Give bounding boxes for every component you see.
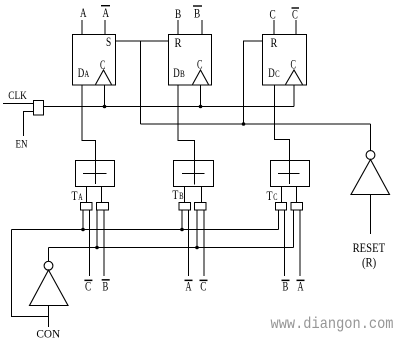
wire DA input from adder A (82, 85, 96, 161)
svg-text:www.diangon.com: www.diangon.com (271, 315, 394, 333)
wire S line FF-A to FF-B (116, 40, 169, 42)
junction clock-FFA (103, 105, 107, 109)
and-gate box TA1 (81, 203, 93, 211)
svg-text:C: C (291, 56, 297, 71)
wire NCON bus to inverter output (48, 248, 50, 262)
svg-text:C: C (197, 56, 203, 71)
svg-text:C: C (275, 70, 280, 80)
junction clock-FFB (199, 105, 203, 109)
wire TB2 to NCON bus (196, 210, 198, 248)
and-gate box TB2 (195, 203, 207, 211)
wire FF-B clock input (200, 85, 202, 107)
svg-text:C: C (270, 7, 276, 22)
svg-text:C: C (100, 57, 105, 72)
wire S/R branch down (140, 41, 142, 124)
wire C-bar output stub (295, 20, 297, 35)
clock triangle FF-A (96, 70, 112, 85)
wire CON input (48, 306, 50, 328)
adder box TA (76, 161, 115, 187)
wire TA2 to NCON bus (96, 210, 98, 248)
junction reset net (242, 122, 246, 126)
wire clock distribution line (44, 106, 295, 108)
svg-text:CLK: CLK (8, 90, 27, 102)
wire B output stub (177, 20, 179, 35)
svg-text:R: R (175, 35, 182, 50)
wire TA2 to B-bar input (103, 210, 105, 276)
wire TB1 to A-bar input (188, 210, 190, 276)
svg-text:A: A (84, 70, 89, 80)
svg-text:CON: CON (36, 327, 60, 338)
wire TC1 to B-bar input (284, 210, 286, 276)
wire TA1 to CON bus (82, 210, 84, 230)
wire TC adder to and-gates (281, 187, 283, 203)
wire DB input from adder B (178, 85, 195, 161)
plus symbol TB (182, 173, 205, 175)
junction TB1-CON bus (180, 228, 184, 232)
wire TA1 to C-bar input (89, 210, 91, 276)
svg-text:D: D (78, 65, 85, 80)
wire A output stub (81, 20, 83, 35)
adder box TB (174, 161, 214, 187)
junction TB2-NCON bus (195, 246, 199, 250)
svg-text:C: C (273, 193, 277, 203)
svg-text:RESET: RESET (353, 241, 386, 255)
inverter U-CON bubble (44, 261, 53, 270)
wire R input FF-C (244, 41, 263, 124)
wire reset net horizontal (141, 123, 371, 125)
svg-text:(R): (R) (362, 256, 376, 270)
wire TB adder to and-gates (184, 187, 186, 203)
svg-text:B: B (194, 6, 200, 21)
wire C output stub (273, 20, 275, 35)
svg-text:A: A (78, 193, 82, 203)
svg-text:D: D (268, 65, 275, 80)
wire TC2 to NCON bus (293, 210, 295, 248)
wire A-bar output stub (104, 20, 106, 35)
wire TB2 to C-bar input (203, 210, 205, 276)
flip-flop FF-B body (169, 35, 212, 86)
wire CON bus left drop (12, 230, 49, 317)
clock gate box (34, 101, 44, 116)
svg-text:A: A (103, 5, 110, 20)
wire RESET input (370, 195, 372, 235)
wire NCON bus (49, 247, 294, 249)
and-gate box TC1 (276, 203, 287, 211)
wire EN input (24, 112, 34, 137)
wire TC1 to CON bus (278, 210, 280, 230)
svg-text:A: A (80, 5, 87, 20)
svg-text:C: C (292, 7, 298, 22)
adder box TC (271, 161, 310, 187)
and-gate box TA2 (97, 203, 109, 211)
and-gate box TB1 (179, 203, 191, 211)
junction TA2-NCON bus (95, 246, 99, 250)
svg-text:B: B (179, 192, 183, 202)
svg-text:T: T (267, 188, 273, 203)
svg-text:T: T (72, 188, 78, 203)
wire reset net vertical to inverter (370, 124, 372, 151)
wire B-bar output stub (201, 20, 203, 35)
svg-text:R: R (271, 35, 278, 50)
inverter U-RESET bubble (366, 151, 375, 160)
junction TA1-CON bus (81, 228, 85, 232)
svg-text:B: B (175, 6, 181, 21)
plus symbol TA (83, 173, 107, 175)
inverter U-CON triangle (30, 270, 69, 306)
wire TC2 to A-bar input (299, 210, 301, 276)
svg-text:EN: EN (16, 139, 29, 151)
svg-text:D: D (173, 65, 180, 80)
wire DC input from adder C (275, 85, 290, 161)
clock triangle FF-B (193, 70, 209, 85)
svg-text:T: T (172, 187, 178, 202)
svg-text:B: B (180, 70, 185, 80)
svg-text:B: B (103, 279, 109, 294)
wire TA adder to and-gates (86, 187, 88, 203)
svg-text:S: S (106, 34, 111, 49)
wire FF-A clock input (104, 85, 106, 107)
wire CON bus (12, 229, 279, 231)
and-gate box TC2 (291, 203, 303, 211)
wire FF-C clock input (293, 85, 295, 107)
flip-flop FF-A body (73, 35, 116, 86)
flip-flop FF-C body (263, 35, 307, 86)
wire TB1 to CON bus (181, 210, 183, 230)
clock triangle FF-C (286, 70, 303, 85)
inverter U-RESET triangle (351, 160, 390, 195)
plus symbol TC (278, 173, 300, 175)
wire CLK input (3, 103, 34, 105)
